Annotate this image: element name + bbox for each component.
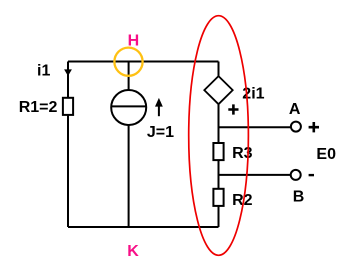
polarity + of dependent source — [228, 104, 238, 114]
svg-text:R1=2: R1=2 — [19, 99, 58, 116]
terminal B — [291, 170, 301, 180]
resistor R3 — [213, 143, 223, 160]
resistor R1 — [63, 98, 73, 115]
current source J — [111, 90, 146, 125]
arrow of source J — [155, 98, 163, 116]
wire top rail (H node) — [68, 61, 219, 63]
wire to terminal B — [219, 174, 291, 176]
polarity + at A — [309, 122, 319, 132]
current arrow i1 — [64, 69, 72, 76]
terminal A — [291, 122, 301, 132]
svg-text:K: K — [127, 243, 139, 260]
wire right branch — [218, 62, 220, 228]
polarity - at B — [309, 174, 314, 176]
wire left branch — [67, 62, 69, 228]
resistor R2 — [213, 189, 223, 206]
wire middle branch — [128, 62, 130, 228]
svg-text:R3: R3 — [232, 145, 253, 162]
wire bottom rail (K node) — [68, 226, 219, 228]
svg-text:J=1: J=1 — [147, 124, 174, 141]
svg-text:i1: i1 — [37, 63, 50, 80]
svg-text:H: H — [128, 32, 140, 49]
svg-text:E0: E0 — [316, 146, 336, 163]
wire to terminal A — [219, 126, 291, 128]
svg-text:B: B — [293, 188, 305, 205]
svg-text:A: A — [289, 101, 301, 118]
selection ellipse (red) — [189, 16, 249, 256]
dependent source 2i1 (diamond) — [204, 76, 232, 104]
node H highlight circle — [114, 48, 142, 76]
